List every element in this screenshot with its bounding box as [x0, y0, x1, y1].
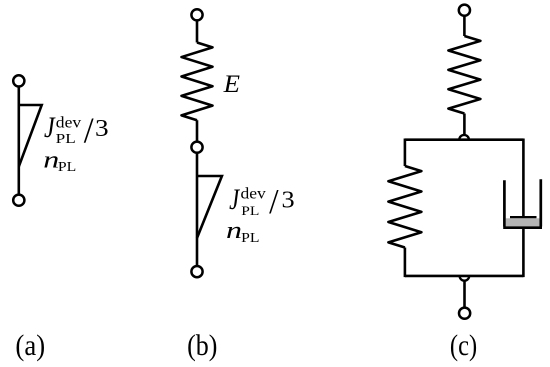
svg-text:3: 3 — [281, 187, 294, 213]
dashpot cylinder cup (c) — [503, 179, 542, 228]
dashpot lower connection (c) — [522, 228, 525, 277]
spring (c) series — [448, 36, 480, 114]
terminal node top (a) — [13, 75, 24, 86]
frame bottom bar (c) — [405, 275, 524, 278]
svg-text:(a): (a) — [15, 330, 45, 363]
wire (b) top — [196, 21, 199, 43]
svg-text:(c): (c) — [450, 329, 477, 362]
dashpot fluid gray fill (c) — [506, 218, 540, 226]
junction node bottom of frame (c) — [460, 276, 470, 281]
svg-text:E: E — [223, 70, 240, 98]
friction element triangle (a) — [19, 105, 42, 167]
frame top bar (c) — [405, 138, 524, 141]
svg-text:/: / — [84, 110, 94, 150]
svg-text:J: J — [229, 183, 240, 215]
frame left upper segment (c) — [404, 139, 407, 167]
terminal node top (c) — [459, 5, 470, 16]
spring E (b) — [182, 43, 213, 121]
svg-text:/: / — [269, 183, 279, 222]
svg-text:PL: PL — [241, 204, 259, 219]
node between spring and friction element (b) — [191, 142, 202, 153]
svg-text:dev: dev — [56, 113, 82, 131]
wire (c) below spring — [463, 114, 466, 135]
wire (a) vertical — [17, 87, 20, 195]
svg-text:(b): (b) — [187, 329, 217, 362]
wire (c) top — [463, 16, 466, 36]
svg-text:n: n — [226, 217, 242, 244]
junction node top of frame (c) — [459, 135, 469, 140]
frame left lower segment (c) — [404, 248, 407, 278]
svg-text:J: J — [44, 111, 56, 144]
wire (b) lower — [196, 153, 199, 267]
svg-text:n: n — [43, 147, 59, 174]
wire (c) bottom — [463, 281, 466, 307]
dashpot piston rod (c) — [522, 139, 525, 218]
terminal node bottom (c) — [459, 308, 470, 319]
wire (b) middle — [196, 120, 199, 142]
svg-text:PL: PL — [241, 231, 259, 246]
svg-text:PL: PL — [58, 160, 76, 175]
spring (c) parallel left branch — [388, 166, 421, 248]
friction element triangle (b) — [197, 176, 222, 238]
terminal node bottom (b) — [191, 266, 202, 277]
svg-text:3: 3 — [95, 115, 109, 142]
svg-text:PL: PL — [56, 132, 76, 147]
terminal node top (b) — [191, 9, 202, 20]
svg-text:dev: dev — [241, 184, 267, 202]
terminal node bottom (a) — [13, 195, 24, 206]
dashpot piston head (c) — [510, 216, 537, 218]
